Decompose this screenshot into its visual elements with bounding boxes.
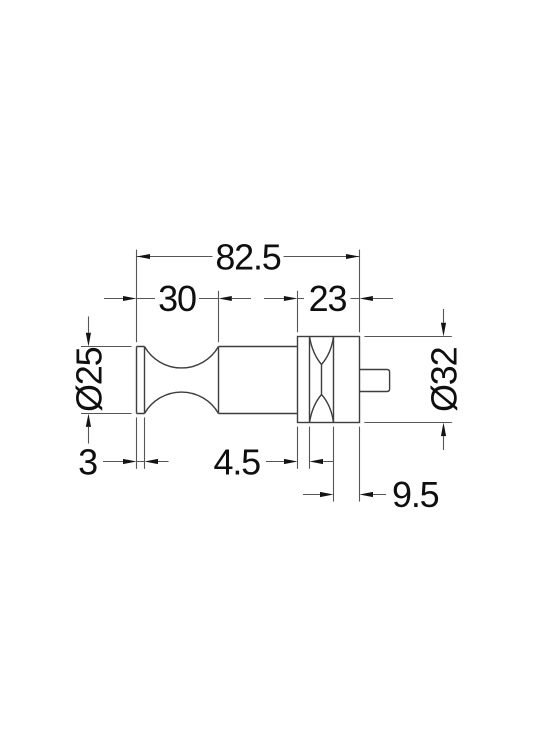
collar inner face line 1 (4.5 offset) — [309, 337, 311, 423]
arrowhead 9.5 right — [360, 492, 374, 497]
extension line inner-face-2 bottom (for 9.5) — [333, 427, 335, 502]
svg-text:Ø32: Ø32 — [424, 347, 465, 412]
extension line collar-left bottom (for 4.5) — [297, 427, 299, 469]
extension line collar-left top (for 23) — [297, 291, 299, 333]
svg-text:9.5: 9.5 — [392, 474, 439, 515]
arrowhead Ø32 bottom — [441, 423, 446, 437]
cylindrical body Ø25 — [219, 347, 298, 414]
arrowhead 30 right — [219, 296, 232, 301]
extension line collar-right bottom (for 9.5) — [359, 427, 361, 502]
extension line collar bottom-right horizontal (for Ø32) — [364, 422, 451, 424]
extension line flange-right bottom (for 3) — [144, 417, 146, 468]
rear fixing stub — [360, 370, 390, 392]
svg-text:30: 30 — [158, 278, 196, 319]
svg-text:23: 23 — [309, 278, 347, 319]
dimension line 30 — [104, 298, 251, 300]
arrowhead 23 right — [360, 296, 373, 301]
flange (front disc, Ø25 x 3) — [137, 347, 145, 414]
dimension line 3 — [103, 461, 169, 463]
collar inner face line 2 (9.5 offset) — [333, 337, 335, 423]
collar concave profile curves — [310, 337, 334, 423]
svg-text:Ø25: Ø25 — [69, 347, 110, 412]
svg-text:82.5: 82.5 — [215, 236, 280, 277]
arrowhead Ø32 top — [441, 323, 446, 337]
extension line flange-left (top, for 82.5 and 30) — [136, 250, 138, 343]
svg-text:3: 3 — [78, 441, 97, 482]
arrowhead Ø25 bottom — [86, 414, 91, 427]
dimension line 23 — [264, 298, 393, 300]
extension line collar-right top (for 82.5 and 23) — [359, 250, 361, 333]
neck concave cove section — [145, 347, 219, 414]
extension line flange-left bottom (for 3) — [136, 417, 138, 468]
arrowhead 82.5 right — [346, 254, 360, 259]
extension line inner-face-1 bottom (for 4.5) — [309, 427, 311, 469]
extension line collar top-right horizontal (for Ø32) — [364, 336, 451, 338]
arrowhead Ø25 top — [86, 333, 91, 347]
extension line flange bottom-left horizontal (for Ø25) — [81, 413, 132, 415]
arrowhead 23 left — [284, 296, 298, 301]
dimension line Ø32 — [443, 309, 445, 450]
dimension line 82.5 — [137, 256, 360, 258]
svg-text:4.5: 4.5 — [214, 441, 261, 482]
arrowhead 4.5 right — [310, 459, 324, 464]
arrowhead 3 left — [123, 459, 137, 464]
wall plate collar Ø32 x 23 — [298, 337, 360, 423]
arrowhead 3 right — [145, 459, 159, 464]
extension line neck/body junction (for 30) — [218, 291, 220, 342]
extension line flange top-left horizontal (for Ø25) — [81, 346, 132, 348]
arrowhead 30 left — [123, 296, 137, 301]
dimension line 9.5 — [303, 494, 386, 496]
dimension line 4.5 — [266, 461, 334, 463]
arrowhead 82.5 left — [137, 254, 151, 259]
dimension line Ø25 — [88, 317, 90, 444]
arrowhead 9.5 left — [320, 492, 334, 497]
arrowhead 4.5 left — [284, 459, 298, 464]
